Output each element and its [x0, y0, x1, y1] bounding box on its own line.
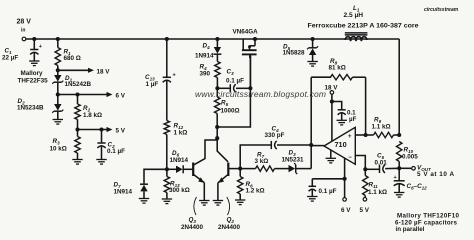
- svg-text:5 V: 5 V: [360, 207, 370, 214]
- svg-text:18 V: 18 V: [97, 69, 111, 76]
- svg-text:0.01: 0.01: [375, 160, 388, 167]
- resistor R12: [164, 121, 187, 170]
- resistor R13: [164, 169, 190, 199]
- node output: [397, 166, 401, 170]
- capacitor V- bypass 0.1uF: [309, 179, 345, 197]
- ground V- bypass: [307, 197, 317, 202]
- resistor R8: [311, 58, 365, 80]
- svg-text:Ferroxcube 2213P A 160-387 cor: Ferroxcube 2213P A 160-387 core: [308, 23, 419, 30]
- svg-text:THF22F35: THF22F35: [18, 78, 49, 85]
- resistor R9: [366, 117, 400, 138]
- wire inverting input: [355, 156, 365, 170]
- svg-text:330 pF: 330 pF: [265, 132, 285, 139]
- capacitor 18V bypass 0.1uF: [332, 102, 357, 124]
- node R2 bottom 5V line: [75, 127, 79, 131]
- svg-text:µF: µF: [349, 116, 357, 123]
- svg-text:1.8 kΩ: 1.8 kΩ: [83, 112, 102, 119]
- svg-text:1N5234B: 1N5234B: [17, 105, 44, 112]
- node D5 top: [311, 37, 315, 41]
- wire Q2 base: [228, 168, 240, 170]
- capacitor C3: [217, 69, 250, 93]
- svg-text:1.2 kΩ: 1.2 kΩ: [246, 188, 265, 195]
- wire top rail: [26, 38, 399, 40]
- ground C2: [96, 160, 106, 165]
- ground Q2 emitter: [213, 201, 223, 206]
- diode D1: [52, 70, 91, 94]
- svg-text:www.circuitsstream.blogspot.co: www.circuitsstream.blogspot.com: [195, 89, 326, 99]
- svg-text:Mallory: Mallory: [21, 70, 44, 77]
- node V- bypass: [343, 177, 347, 181]
- capacitor C2: [97, 130, 125, 160]
- svg-text:5 V at 10 A: 5 V at 10 A: [417, 171, 454, 178]
- diode D7: [114, 182, 149, 199]
- svg-text:1.1 kΩ: 1.1 kΩ: [372, 124, 391, 131]
- label Mallory THF22F35: [18, 70, 49, 85]
- resistor R2: [75, 95, 102, 130]
- svg-text:in parallel: in parallel: [396, 226, 425, 233]
- label Mallory THF120F10: [395, 213, 460, 234]
- capacitor C4: [265, 126, 312, 150]
- svg-text:1000Ω: 1000Ω: [221, 108, 240, 115]
- svg-text:1N914: 1N914: [195, 53, 214, 60]
- capacitor C6-C12: [394, 168, 428, 192]
- wire noninverting input: [355, 134, 365, 136]
- svg-text:+: +: [39, 44, 42, 50]
- terminal 6 V: [341, 198, 351, 214]
- svg-text:0.1 µF: 0.1 µF: [319, 188, 337, 195]
- wire output to op-amp: [311, 145, 324, 147]
- resistor R7: [240, 152, 288, 172]
- wire to Vout terminal: [399, 167, 415, 171]
- node V+ bypass: [330, 99, 334, 103]
- svg-text:0.005: 0.005: [402, 154, 418, 161]
- node C2 top: [99, 127, 103, 131]
- watermark: [195, 7, 459, 99]
- node R9 right: [397, 133, 401, 137]
- svg-text:710: 710: [335, 140, 347, 149]
- node D6 junction: [165, 167, 169, 171]
- svg-text:+: +: [173, 72, 176, 78]
- ground D2: [53, 120, 63, 125]
- node 6V line: [56, 92, 60, 96]
- label Ferroxcube core: [308, 23, 419, 30]
- wire V- rail: [344, 158, 346, 197]
- diode D2: [17, 95, 63, 120]
- resistor R5: [215, 88, 240, 127]
- svg-text:28 V: 28 V: [17, 19, 32, 26]
- svg-text:5 V: 5 V: [116, 128, 126, 135]
- diode D3: [282, 150, 312, 175]
- capacitor C13: [145, 39, 176, 121]
- node collectors: [215, 127, 219, 140]
- svg-text:1N5231: 1N5231: [282, 157, 305, 164]
- svg-text:2N4400: 2N4400: [218, 224, 241, 231]
- resistor R1: [55, 39, 81, 70]
- svg-text:0.1 µF: 0.1 µF: [107, 148, 125, 155]
- ground R13: [162, 199, 172, 204]
- svg-text:VN64GA: VN64GA: [233, 29, 259, 36]
- ground R6: [235, 200, 245, 205]
- svg-text:1N914: 1N914: [170, 157, 189, 164]
- ground D5: [307, 62, 317, 67]
- op-amp U2 710: [324, 127, 355, 164]
- wire R8 to noninverting: [365, 77, 367, 135]
- svg-text:390: 390: [200, 71, 211, 78]
- svg-text:0.1 µF: 0.1 µF: [226, 78, 244, 85]
- ground op-amp: [326, 150, 336, 163]
- wire gate lead: [249, 55, 251, 88]
- diode D5: [283, 39, 319, 62]
- svg-text:1.1 kΩ: 1.1 kΩ: [368, 189, 387, 196]
- transistor Q3: [181, 140, 217, 231]
- svg-text:6 V: 6 V: [341, 207, 351, 214]
- wire comparator node rail: [310, 77, 312, 168]
- svg-text:680 Ω: 680 Ω: [64, 55, 81, 62]
- input terminal 28 V: [17, 19, 32, 41]
- node 18V tap: [56, 68, 60, 72]
- svg-text:in: in: [21, 28, 25, 34]
- svg-text:1N5242B: 1N5242B: [65, 81, 92, 88]
- ground C1: [29, 61, 39, 66]
- mosfet U1 VN64GA: [233, 29, 259, 59]
- node R6 top: [238, 167, 242, 171]
- ground Q3 emitter: [199, 201, 209, 206]
- transistor Q2: [217, 140, 240, 231]
- svg-text:1N5828: 1N5828: [283, 50, 306, 57]
- svg-text:circuitsstream: circuitsstream: [424, 7, 459, 13]
- node comparator output: [309, 143, 313, 147]
- resistor R3: [50, 130, 81, 160]
- svg-text:6 V: 6 V: [116, 93, 126, 100]
- node noninverting: [364, 133, 368, 137]
- resistor R4: [200, 62, 221, 89]
- svg-text:1 µF: 1 µF: [146, 81, 159, 88]
- svg-text:2N4400: 2N4400: [181, 224, 204, 231]
- svg-text:81 kΩ: 81 kΩ: [329, 65, 346, 72]
- wire 6 V line arrow: [58, 92, 126, 100]
- diode D6: [167, 150, 193, 173]
- svg-text:−: −: [348, 155, 352, 161]
- svg-text:22 µF: 22 µF: [2, 55, 18, 62]
- wire D7 branch: [144, 169, 167, 183]
- terminal 5 V: [360, 198, 370, 215]
- svg-text:1N914: 1N914: [114, 189, 133, 196]
- node C1 top: [32, 37, 36, 41]
- label Vout: [417, 165, 454, 179]
- wire gate loop: [217, 55, 250, 127]
- node inverting: [363, 167, 367, 171]
- resistor R6: [238, 169, 265, 200]
- svg-text:+: +: [348, 134, 352, 140]
- wire output rail drop: [398, 39, 400, 135]
- capacitor C5: [365, 153, 399, 174]
- node C13 top: [165, 37, 169, 41]
- svg-text:10 kΩ: 10 kΩ: [50, 146, 67, 153]
- terminal 18 V supply: [325, 85, 339, 142]
- wire 18 V tap arrow: [58, 68, 110, 76]
- node R5 bottom: [215, 125, 219, 129]
- ground 18V bypass: [337, 120, 347, 125]
- node R2 top: [75, 92, 79, 96]
- ground C6-C12: [394, 193, 404, 198]
- diode D4: [195, 39, 221, 62]
- capacitor C1: [2, 39, 42, 62]
- node C3 right: [248, 86, 252, 90]
- node R4 bottom: [215, 86, 219, 90]
- resistor R10: [397, 142, 419, 169]
- ground D7: [139, 199, 149, 204]
- svg-text:3 kΩ: 3 kΩ: [255, 158, 269, 165]
- wire C4 branch: [240, 145, 271, 169]
- node D4 top: [215, 37, 219, 41]
- svg-text:1 kΩ: 1 kΩ: [174, 130, 188, 137]
- wire 5 V line arrow: [78, 127, 126, 135]
- resistor R11: [363, 169, 387, 197]
- svg-text:2.5 µH: 2.5 µH: [344, 12, 364, 19]
- ground R3: [72, 160, 82, 165]
- node R1 top: [56, 37, 60, 41]
- svg-text:Mallory THF120F10: Mallory THF120F10: [397, 213, 460, 220]
- inductor L1: [344, 5, 368, 41]
- svg-text:+: +: [394, 175, 397, 181]
- svg-text:300 kΩ: 300 kΩ: [169, 187, 190, 194]
